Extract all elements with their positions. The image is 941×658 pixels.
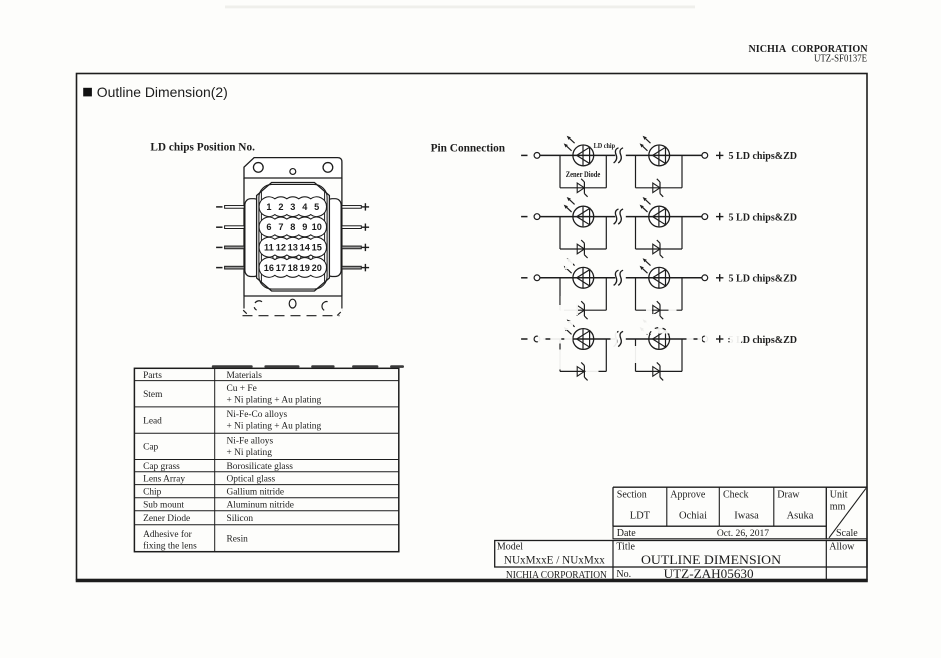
header document number: [814, 54, 867, 65]
LD chip D3b: [640, 258, 670, 288]
svg-text:20: 20: [312, 263, 322, 273]
scale cell diagonal: [826, 487, 867, 539]
svg-text:Cap grass: Cap grass: [143, 462, 180, 472]
svg-text:+ Ni plating: + Ni plating: [227, 448, 273, 458]
svg-text:1: 1: [266, 202, 271, 212]
svg-text:Date: Date: [617, 528, 636, 539]
date row: [613, 526, 826, 539]
svg-text:Scale: Scale: [836, 528, 858, 539]
wire: zener branch loop 3b: [636, 278, 683, 310]
label: LD chips Position No.: [150, 141, 255, 153]
header company name: [749, 43, 868, 55]
label: 5 LD chips&amp;ZD row 4: [729, 335, 798, 346]
svg-text:Check: Check: [723, 490, 749, 501]
svg-text:18: 18: [288, 263, 298, 273]
svg-text:LDT: LDT: [630, 511, 651, 522]
node: cathode terminal row 3: [521, 275, 540, 281]
section title bullet: [83, 88, 92, 97]
wire: zener branch loop 1b: [636, 155, 683, 187]
svg-text:Ochiai: Ochiai: [679, 511, 707, 522]
svg-text:LD chip: LD chip: [594, 141, 616, 150]
materials table grid: [134, 368, 398, 551]
package lead polarity plus marks: [362, 206, 369, 208]
svg-text:12: 12: [276, 243, 286, 253]
zener diode ZD1b: [653, 179, 663, 197]
bottom plate dashed bottom edge: [243, 315, 340, 317]
zener diode ZD3a: [577, 301, 587, 319]
node: anode terminal row 3: [702, 274, 724, 281]
svg-text:5 LD chips&ZD: 5 LD chips&ZD: [729, 212, 798, 223]
svg-text:+ Ni plating + Au plating: + Ni plating + Au plating: [227, 395, 322, 405]
label: 5 LD chips&amp;ZD row 2: [729, 212, 798, 223]
svg-text:7: 7: [278, 222, 283, 232]
main drawing frame: [77, 74, 868, 580]
svg-text:Cap: Cap: [143, 443, 158, 453]
package lead polarity minus marks: [216, 206, 222, 208]
svg-text:UTZ-SF0137E: UTZ-SF0137E: [814, 54, 867, 65]
svg-text:Zener Diode: Zener Diode: [566, 170, 601, 179]
svg-text:6: 6: [266, 222, 271, 232]
zener diode ZD1a: [577, 179, 587, 197]
svg-text:17: 17: [276, 263, 286, 273]
bottom plate right hole fragment: [322, 302, 328, 311]
wire: break to right terminal, row 3: [626, 277, 702, 279]
wire: left terminal to break, row 4: [540, 338, 615, 340]
cap inner rim: [259, 184, 327, 289]
node: cathode terminal row 2: [521, 214, 540, 220]
svg-text:16: 16: [264, 263, 274, 273]
svg-text:LD chips Position No.: LD chips Position No.: [150, 141, 255, 153]
node: anode terminal row 1: [702, 152, 724, 159]
top plate right hole: [323, 163, 333, 173]
svg-text:10: 10: [312, 222, 322, 232]
package leads right: [342, 206, 361, 209]
svg-text:Pin Connection: Pin Connection: [431, 143, 506, 155]
title block: approval header row: [613, 486, 867, 488]
package body bottom line: [244, 295, 342, 297]
lens row junction mini circles: [273, 255, 277, 259]
wire: zener branch loop 4a: [560, 339, 606, 371]
svg-text:9: 9: [302, 222, 307, 232]
svg-text:Materials: Materials: [227, 371, 263, 381]
wire: left terminal to break, row 3: [540, 277, 615, 279]
svg-text::: :: [728, 335, 731, 345]
label: Pin Connection: [431, 143, 506, 155]
svg-text:2: 2: [278, 202, 283, 212]
top plate left hole: [253, 163, 263, 173]
svg-text:mm: mm: [830, 502, 846, 513]
svg-text:Borosilicate glass: Borosilicate glass: [227, 462, 294, 472]
label: Zener Diode: [566, 170, 601, 179]
package top plate: [244, 158, 342, 178]
lens array rows: [259, 197, 327, 217]
svg-text:fixing the lens: fixing the lens: [143, 541, 197, 552]
label: 5 LD chips&amp;ZD row 1: [729, 151, 798, 162]
node: cathode terminal row 1: [521, 153, 540, 159]
svg-text:Ni-Fe alloys: Ni-Fe alloys: [227, 437, 274, 447]
svg-text:4: 4: [302, 202, 308, 212]
section title text: [97, 84, 228, 100]
svg-text:Iwasa: Iwasa: [734, 511, 759, 522]
svg-text:UTZ-ZAH05630: UTZ-ZAH05630: [664, 567, 754, 581]
svg-text:8: 8: [290, 222, 295, 232]
svg-text:Allow: Allow: [829, 542, 855, 553]
wire: zener branch loop 1a: [560, 155, 606, 187]
wire: left terminal to break, row 2: [540, 216, 615, 218]
wire: zener branch loop 2a: [560, 217, 606, 249]
svg-text:Cu + Fe: Cu + Fe: [227, 384, 257, 394]
zener diode ZD2b: [653, 240, 663, 258]
svg-text:5 LD chips&ZD: 5 LD chips&ZD: [729, 274, 798, 285]
cap octagon outline: [257, 183, 330, 292]
wire: zener branch loop 2b: [636, 217, 683, 249]
svg-text:Stem: Stem: [143, 390, 163, 400]
svg-text:Zener Diode: Zener Diode: [143, 514, 190, 524]
LD chip D4b: [640, 319, 670, 349]
package body sides: [243, 178, 245, 296]
svg-text:No.: No.: [616, 569, 631, 580]
LD chip D1a: [564, 136, 594, 166]
svg-text:Silicon: Silicon: [227, 514, 254, 524]
wire: break to right terminal, row 2: [626, 216, 702, 218]
node: anode terminal row 4: [702, 335, 724, 342]
svg-text:14: 14: [300, 243, 311, 253]
svg-text:Approve: Approve: [670, 490, 706, 501]
svg-text:OUTLINE DIMENSION: OUTLINE DIMENSION: [641, 553, 781, 567]
model/title row: [495, 541, 867, 568]
svg-text:Gallium nitride: Gallium nitride: [227, 488, 285, 498]
row 4 chip2 erased top arc fragments: [649, 328, 669, 335]
svg-text:Lens Array: Lens Array: [143, 475, 185, 485]
cap right ear: [326, 199, 341, 277]
zener diode ZD3b: [653, 301, 663, 319]
svg-text:Lead: Lead: [143, 416, 162, 426]
label: 5 LD chips&amp;ZD row 3: [729, 274, 798, 285]
zener diode ZD2a: [577, 240, 587, 258]
svg-text:Adhesive for: Adhesive for: [143, 529, 193, 540]
svg-text:5: 5: [314, 202, 319, 212]
label: LD chip: [594, 141, 616, 150]
watermark dark dashes above table: [212, 365, 253, 368]
bottom row: company / drawing number: [495, 566, 827, 568]
svg-text:11: 11: [264, 243, 274, 253]
wire: zener branch loop 3a: [560, 278, 606, 310]
zener diode ZD4a: [577, 362, 587, 380]
wire: zener branch loop 4b: [636, 339, 683, 371]
svg-text:Resin: Resin: [227, 535, 249, 545]
bottom plate center hole: [289, 299, 296, 308]
svg-text:Draw: Draw: [777, 490, 800, 501]
LD chip D1b: [640, 136, 670, 166]
svg-text:Sub mount: Sub mount: [143, 501, 184, 511]
wire: left terminal to break, row 1: [540, 154, 615, 156]
LD chip D2a: [564, 197, 594, 227]
svg-text:Oct. 26, 2017: Oct. 26, 2017: [717, 528, 769, 539]
bottom plate left hole fragment: [255, 301, 262, 303]
scanner streak artifact: [225, 6, 695, 9]
svg-text:Optical glass: Optical glass: [227, 475, 276, 485]
svg-text:Asuka: Asuka: [787, 511, 814, 522]
break mark (continuation), row 4: [614, 331, 624, 346]
cap left ear: [245, 199, 260, 277]
svg-text:19: 19: [300, 263, 310, 273]
LD chip D4a: [564, 319, 594, 349]
svg-text:Outline Dimension(2): Outline Dimension(2): [97, 84, 228, 100]
svg-text:Parts: Parts: [143, 371, 162, 381]
svg-text:Model: Model: [497, 542, 523, 553]
svg-text:Unit: Unit: [830, 490, 848, 501]
wire: break to right terminal, row 4: [626, 338, 702, 340]
break mark (continuation), row 1: [614, 148, 624, 163]
break mark (continuation), row 3: [614, 270, 624, 285]
svg-text:+ Ni plating + Au plating: + Ni plating + Au plating: [227, 422, 322, 432]
svg-text:Aluminum nitride: Aluminum nitride: [227, 501, 294, 511]
svg-text:5 LD chips&ZD: 5 LD chips&ZD: [729, 151, 798, 162]
LD chip D2b: [640, 197, 670, 227]
bottom plate side edges: [243, 296, 245, 309]
svg-text:Ni-Fe-Co alloys: Ni-Fe-Co alloys: [227, 410, 288, 420]
svg-text:3: 3: [290, 202, 295, 212]
svg-text:Chip: Chip: [143, 488, 162, 498]
svg-text:Section: Section: [617, 490, 647, 501]
svg-text:NICHIA CORPORATION: NICHIA CORPORATION: [506, 570, 607, 581]
top plate center hole: [290, 169, 296, 175]
svg-text:NUxMxxE / NUxMxx: NUxMxxE / NUxMxx: [504, 553, 605, 567]
cap inner side wall lines: [260, 192, 262, 282]
company name cell: [506, 570, 607, 581]
svg-text:15: 15: [312, 243, 322, 253]
watermark erasure blobs: [566, 294, 580, 305]
wire: break to right terminal, row 1: [626, 154, 702, 156]
LD chip D3a: [564, 258, 594, 288]
break mark (continuation), row 2: [614, 209, 624, 224]
svg-text:Title: Title: [616, 542, 635, 553]
svg-text:13: 13: [288, 243, 298, 253]
zener diode ZD4b: [653, 362, 663, 380]
node: anode terminal row 2: [702, 213, 724, 220]
package leads left: [225, 206, 245, 209]
node: cathode terminal row 4: [521, 336, 540, 342]
